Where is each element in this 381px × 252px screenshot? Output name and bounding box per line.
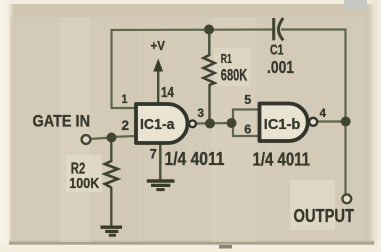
resistor R2 (105, 161, 118, 188)
svg-text:1/4 4011: 1/4 4011 (165, 148, 225, 169)
output bubble pin 3 (189, 120, 196, 127)
svg-text:C1: C1 (270, 42, 284, 59)
wire: pin 14 / +V lead (157, 70, 159, 103)
subtle scan streaks (60, 17, 90, 242)
wire: pin 1 horizontal into gate a (111, 107, 137, 109)
junction node: gate-in / R2 / pin2 (107, 133, 117, 143)
svg-text:R1: R1 (221, 52, 232, 66)
svg-text:7: 7 (150, 147, 157, 162)
wire: top rail right of C1 to top-right corner (281, 28, 346, 30)
svg-text:+V: +V (151, 38, 166, 53)
svg-text:680K: 680K (221, 66, 248, 84)
svg-text:GATE IN: GATE IN (33, 113, 91, 131)
wire: input bracket of gate b (233, 110, 258, 124)
op-amp gate IC1-a body (136, 104, 188, 143)
svg-text:14: 14 (161, 85, 174, 101)
svg-text:4: 4 (320, 108, 327, 120)
svg-text:3: 3 (198, 108, 205, 120)
wire: top feedback rail (111, 28, 273, 31)
power +V symbol (153, 59, 163, 72)
junction node: pin4 / right rail (341, 117, 351, 127)
svg-text:2: 2 (122, 118, 130, 133)
wire: GATE IN horizontal (90, 138, 112, 140)
svg-text:5: 5 (244, 93, 251, 107)
svg-text:IC1-a: IC1-a (140, 116, 175, 133)
wire: right vertical from top-right corner to output circle (344, 29, 346, 196)
wire: R1 bottom lead to pin 3 node (208, 84, 210, 124)
wire: left vertical from top rail to pin 1 (110, 29, 112, 108)
junction node: top rail / R1 (204, 25, 214, 35)
svg-text:6: 6 (244, 123, 251, 137)
node: OUTPUT terminal (342, 194, 351, 203)
ground (gate a pin 7) (147, 181, 175, 190)
capacitor C1 (274, 18, 284, 40)
output bubble pin 4 (309, 118, 317, 126)
svg-text:1/4 4011: 1/4 4011 (253, 149, 311, 169)
wire: R2 top lead from gate-in node (110, 137, 112, 162)
svg-text:.001: .001 (267, 57, 294, 77)
wire: R2 bottom lead to ground (110, 187, 112, 227)
resistor R1 (204, 55, 215, 85)
wire: pin 7 ground lead (159, 144, 161, 181)
svg-text:OUTPUT: OUTPUT (294, 206, 355, 226)
junction node: gate-b input split (227, 118, 237, 128)
svg-text:IC1-b: IC1-b (264, 116, 301, 133)
ground (R2) (101, 227, 123, 235)
node: GATE IN terminal (82, 135, 91, 144)
junction node: pin3 / R1 bottom (205, 119, 215, 129)
svg-text:1: 1 (122, 94, 129, 106)
op-amp gate IC1-b body (260, 104, 308, 142)
wire: pin 3 output to split node (196, 122, 232, 125)
wire: pin 4 output of gate b to right rail (317, 120, 346, 122)
svg-text:100K: 100K (69, 175, 99, 192)
wire: pin 2 horizontal (111, 136, 136, 137)
wire: R1 top lead from junction (208, 30, 210, 57)
